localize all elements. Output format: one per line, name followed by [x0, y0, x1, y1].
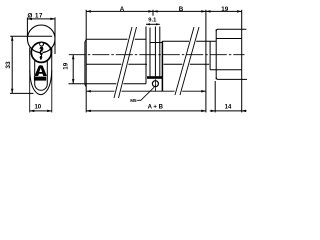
knob top edge [216, 29, 246, 31]
cam thick bottom bar [147, 76, 163, 79]
cam middle vertical [154, 27, 156, 77]
left face bottom chamfer [85, 85, 86, 87]
tangent line [86, 63, 209, 65]
B-half bottom edge + upper A+B dimension line [86, 90, 206, 92]
lower A+B dimension line [86, 110, 206, 112]
label 33 [5, 61, 12, 69]
housing circle [27, 25, 55, 53]
14-dim left extension [214, 81, 216, 112]
B-half right face / extension [205, 10, 207, 113]
33 bottom extension [10, 92, 34, 94]
A-half end face / 9.1 left extension [145, 27, 147, 84]
10 dimension line [30, 110, 52, 112]
10-dim extension right [51, 70, 53, 112]
left face outer line [84, 42, 86, 85]
svg-text:14: 14 [225, 104, 232, 110]
cam right side / 9.1 right extension [159, 27, 161, 77]
left face top chamfer [85, 40, 86, 43]
Ø17 extension line right [54, 17, 56, 54]
plug circle [31, 42, 51, 62]
M5 leader [137, 87, 154, 100]
inner profile channel [35, 61, 48, 90]
M5 hole axis [154, 79, 156, 91]
neck/knob lower shoulder line [210, 69, 242, 71]
svg-text:9.1: 9.1 [148, 18, 157, 24]
knob front face [215, 29, 217, 79]
cam left side [149, 28, 151, 77]
Ø17 extension line left [26, 17, 28, 37]
9.1 dimension [148, 18, 157, 24]
A/B junction tick [152, 10, 154, 16]
Ø17 dimension line [27, 18, 55, 20]
knob upper shoulder line [216, 38, 242, 40]
label Ø17 [27, 12, 42, 19]
top dimension chain line [86, 10, 242, 12]
svg-text:19: 19 [63, 62, 70, 69]
keyway A-shaped cut [35, 65, 47, 76]
profile outline tapered [30, 48, 52, 95]
left extension / face inner line [85, 10, 87, 113]
svg-text:M5: M5 [130, 98, 137, 103]
keyway wavy stem [39, 47, 43, 60]
chord line + 33 top extension [10, 35, 52, 37]
break mark 2 [175, 27, 194, 95]
knob bottom edge [216, 77, 247, 79]
14 dimension line [210, 110, 247, 112]
M5 screw hole circle [152, 81, 158, 87]
centerline horizontal [69, 54, 245, 56]
A-half bottom edge + 19 extension [69, 83, 147, 85]
B-half top edge [162, 40, 216, 42]
left 19 dimension line [72, 55, 74, 84]
10-dim extension left [29, 70, 31, 112]
knob end face [241, 10, 243, 113]
keyway bottom bar [34, 77, 46, 81]
M5 label [130, 98, 137, 103]
labels A B 19 [120, 6, 229, 13]
keyway bulge [39, 42, 44, 47]
svg-text:10: 10 [34, 104, 41, 110]
svg-text:33: 33 [5, 61, 12, 69]
cam top cap [150, 42, 162, 44]
neck second face line [209, 41, 211, 70]
svg-text:A + B: A + B [148, 105, 164, 111]
B-half left face / cam right side [161, 41, 163, 91]
label 10 [34, 104, 41, 110]
break mark 1 [114, 27, 132, 98]
33 dimension line [11, 36, 13, 93]
A-half top edge [86, 38, 146, 40]
